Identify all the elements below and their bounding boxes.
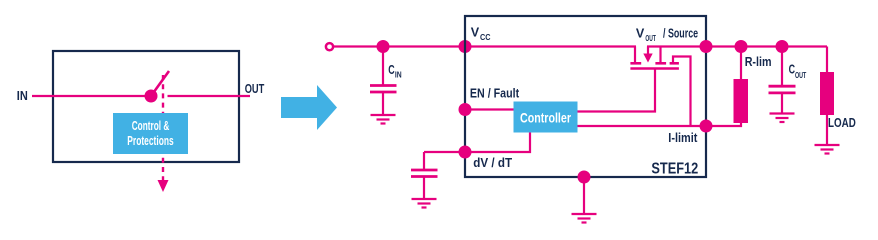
ground (LOAD)	[815, 145, 840, 154]
svg-text:OUT: OUT	[795, 70, 807, 80]
wire VCC rail	[334, 45, 636, 47]
bracket contact bar	[670, 62, 679, 65]
junction COUT tap	[776, 40, 789, 53]
node ground at box edge	[578, 171, 591, 184]
wire IN	[32, 95, 151, 97]
svg-text:Protections: Protections	[127, 134, 173, 148]
wire dV/dT	[424, 132, 530, 152]
svg-text:/ Source: / Source	[663, 26, 698, 41]
svg-text:R-lim: R-lim	[745, 54, 772, 69]
drain drop	[634, 47, 636, 63]
input terminal circle	[326, 43, 333, 50]
svg-text:V: V	[471, 25, 480, 40]
source contact stub	[659, 47, 661, 63]
wire I-limit	[577, 123, 741, 126]
junction R-lim tap	[735, 40, 748, 53]
svg-text:Control &: Control &	[132, 119, 170, 133]
body arrow shaft	[647, 47, 649, 55]
node EN at box edge	[459, 103, 472, 116]
svg-text:Controller: Controller	[520, 111, 572, 126]
ground (dV/dT cap)	[412, 199, 437, 208]
ground (CIN)	[371, 115, 396, 124]
STEF12 block	[465, 16, 706, 177]
ground (COUT)	[770, 114, 795, 123]
capacitor CIN	[370, 47, 397, 115]
switch lever	[151, 71, 169, 96]
resistor R-lim	[740, 47, 742, 80]
switch pole dot	[145, 90, 158, 103]
svg-text:V: V	[636, 26, 645, 41]
ground (device)	[572, 214, 597, 223]
body arrow head	[643, 54, 652, 63]
drain contact bar	[630, 62, 641, 65]
svg-text:I-limit: I-limit	[668, 130, 698, 145]
svg-text:EN / Fault: EN / Fault	[470, 86, 520, 101]
controller box U1	[514, 102, 578, 133]
wire gate to controller	[577, 69, 655, 112]
left block diagram box	[53, 51, 239, 162]
svg-text:dV / dT: dV / dT	[473, 155, 512, 170]
wire VOUT rail	[647, 45, 827, 47]
wire ground stub	[583, 177, 585, 214]
transition arrow	[281, 85, 337, 130]
gate plate	[630, 67, 679, 70]
MOSFET pass transistor Q1	[630, 47, 690, 127]
svg-text:CC: CC	[480, 32, 491, 42]
load resistor	[826, 47, 828, 73]
node VCC at box edge	[459, 40, 472, 53]
svg-text:OUT: OUT	[245, 81, 265, 96]
junction CIN tap	[377, 40, 390, 53]
svg-text:LOAD: LOAD	[828, 115, 856, 130]
dashed control line	[162, 75, 164, 181]
node VOUT at box edge	[700, 40, 713, 53]
node dV/dT at box edge	[459, 146, 472, 159]
node I-limit at box edge	[700, 120, 713, 133]
svg-text:IN: IN	[17, 88, 28, 103]
gate sense bracket	[673, 57, 691, 127]
svg-text:OUT: OUT	[645, 33, 656, 43]
svg-text:IN: IN	[395, 70, 402, 80]
source contact bar	[655, 62, 666, 65]
wire EN/Fault	[465, 108, 514, 110]
dashed line arrowhead	[158, 180, 169, 192]
capacitor COUT	[769, 47, 796, 114]
capacitor dV/dT	[411, 152, 438, 199]
svg-text:STEF12: STEF12	[651, 160, 698, 177]
Control & Protections box	[113, 113, 188, 154]
wire OUT segment	[168, 95, 251, 97]
